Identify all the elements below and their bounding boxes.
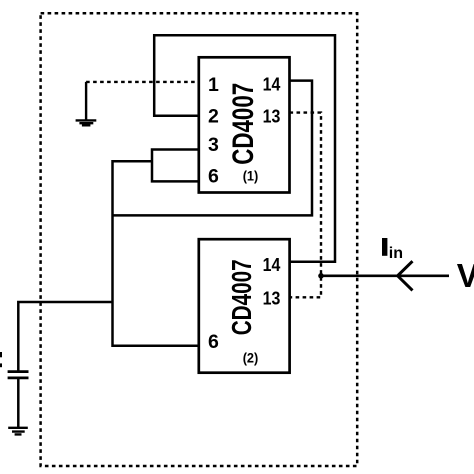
ground under capacitor <box>8 428 28 435</box>
wire: capacitor branch <box>18 302 112 371</box>
svg-text:14: 14 <box>263 255 281 275</box>
svg-text:13: 13 <box>263 288 281 308</box>
arrowhead on Iin line <box>398 261 413 290</box>
clipped capacitor label fragment at left edge <box>0 352 2 357</box>
capacitor C1 plates <box>8 372 29 378</box>
svg-text:2: 2 <box>208 106 219 128</box>
ground at U1 pin1 <box>76 82 97 125</box>
svg-text:in: in <box>389 245 403 262</box>
dashed wire: ground to U1 pin1 <box>86 81 199 83</box>
svg-text:3: 3 <box>208 134 219 156</box>
wire: bracket left, down to U2 pin6 <box>113 161 199 345</box>
wire: Iin input line <box>321 274 449 277</box>
svg-text:6: 6 <box>208 166 219 188</box>
svg-text:13: 13 <box>263 107 281 127</box>
svg-text:CD4007: CD4007 <box>226 259 257 335</box>
svg-text:1: 1 <box>208 74 219 96</box>
dashed wire: U1 pin13 to U2 pin13 <box>290 113 322 298</box>
IC U1 CD4007 (1) body <box>199 57 290 192</box>
svg-text:CD4007: CD4007 <box>227 83 260 165</box>
svg-text:6: 6 <box>208 331 219 353</box>
wire: capacitor to ground <box>17 379 20 427</box>
wire: U1 pin14 loop down to mid rail <box>113 81 313 216</box>
wire: U1 pin2 to top loop to U2 pin14 <box>154 35 335 262</box>
svg-text:(2): (2) <box>243 349 259 365</box>
wire: U1 pin3-pin6 bracket <box>152 150 199 182</box>
dashed boundary box <box>41 13 358 466</box>
svg-text:(1): (1) <box>243 168 259 184</box>
IC U2 CD4007 (2) body <box>199 239 290 373</box>
node junction dot at Iin/pin13 rail <box>318 273 324 279</box>
label Iin <box>382 238 387 256</box>
svg-text:V: V <box>457 257 474 294</box>
svg-text:14: 14 <box>263 75 281 95</box>
